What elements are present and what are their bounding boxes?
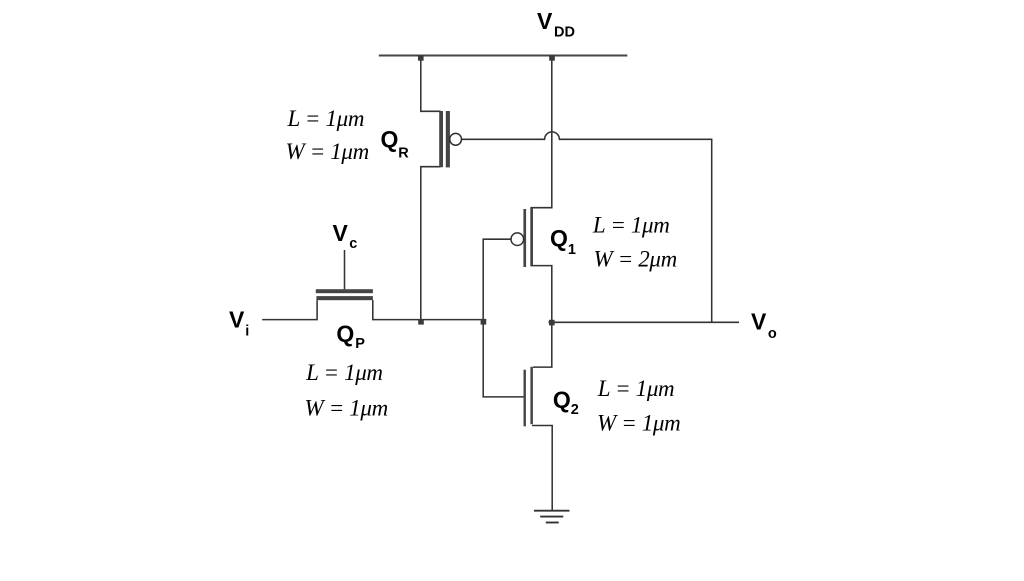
svg-text:L = 1μm: L = 1μm xyxy=(287,106,365,131)
svg-text:W = 1μm: W = 1μm xyxy=(286,139,369,164)
svg-text:L = 1μm: L = 1μm xyxy=(597,376,675,401)
svg-text:W = 2μm: W = 2μm xyxy=(594,247,677,272)
svg-text:Q: Q xyxy=(336,321,354,347)
svg-text:2: 2 xyxy=(571,402,579,418)
svg-text:o: o xyxy=(768,326,777,342)
svg-text:W = 1μm: W = 1μm xyxy=(597,411,680,436)
svg-text:W = 1μm: W = 1μm xyxy=(305,396,388,421)
svg-text:Q: Q xyxy=(553,387,571,413)
svg-text:R: R xyxy=(398,146,409,162)
svg-text:V: V xyxy=(537,8,553,34)
svg-text:1: 1 xyxy=(568,242,576,258)
svg-text:Q: Q xyxy=(550,225,568,251)
svg-text:DD: DD xyxy=(554,25,575,41)
svg-text:P: P xyxy=(355,336,365,352)
svg-text:V: V xyxy=(229,307,245,333)
svg-text:L = 1μm: L = 1μm xyxy=(305,360,383,385)
svg-text:Q: Q xyxy=(381,126,399,152)
svg-text:i: i xyxy=(245,323,249,339)
svg-text:c: c xyxy=(349,236,357,252)
svg-text:V: V xyxy=(751,309,767,335)
svg-text:L = 1μm: L = 1μm xyxy=(592,213,670,238)
svg-text:V: V xyxy=(333,220,349,246)
